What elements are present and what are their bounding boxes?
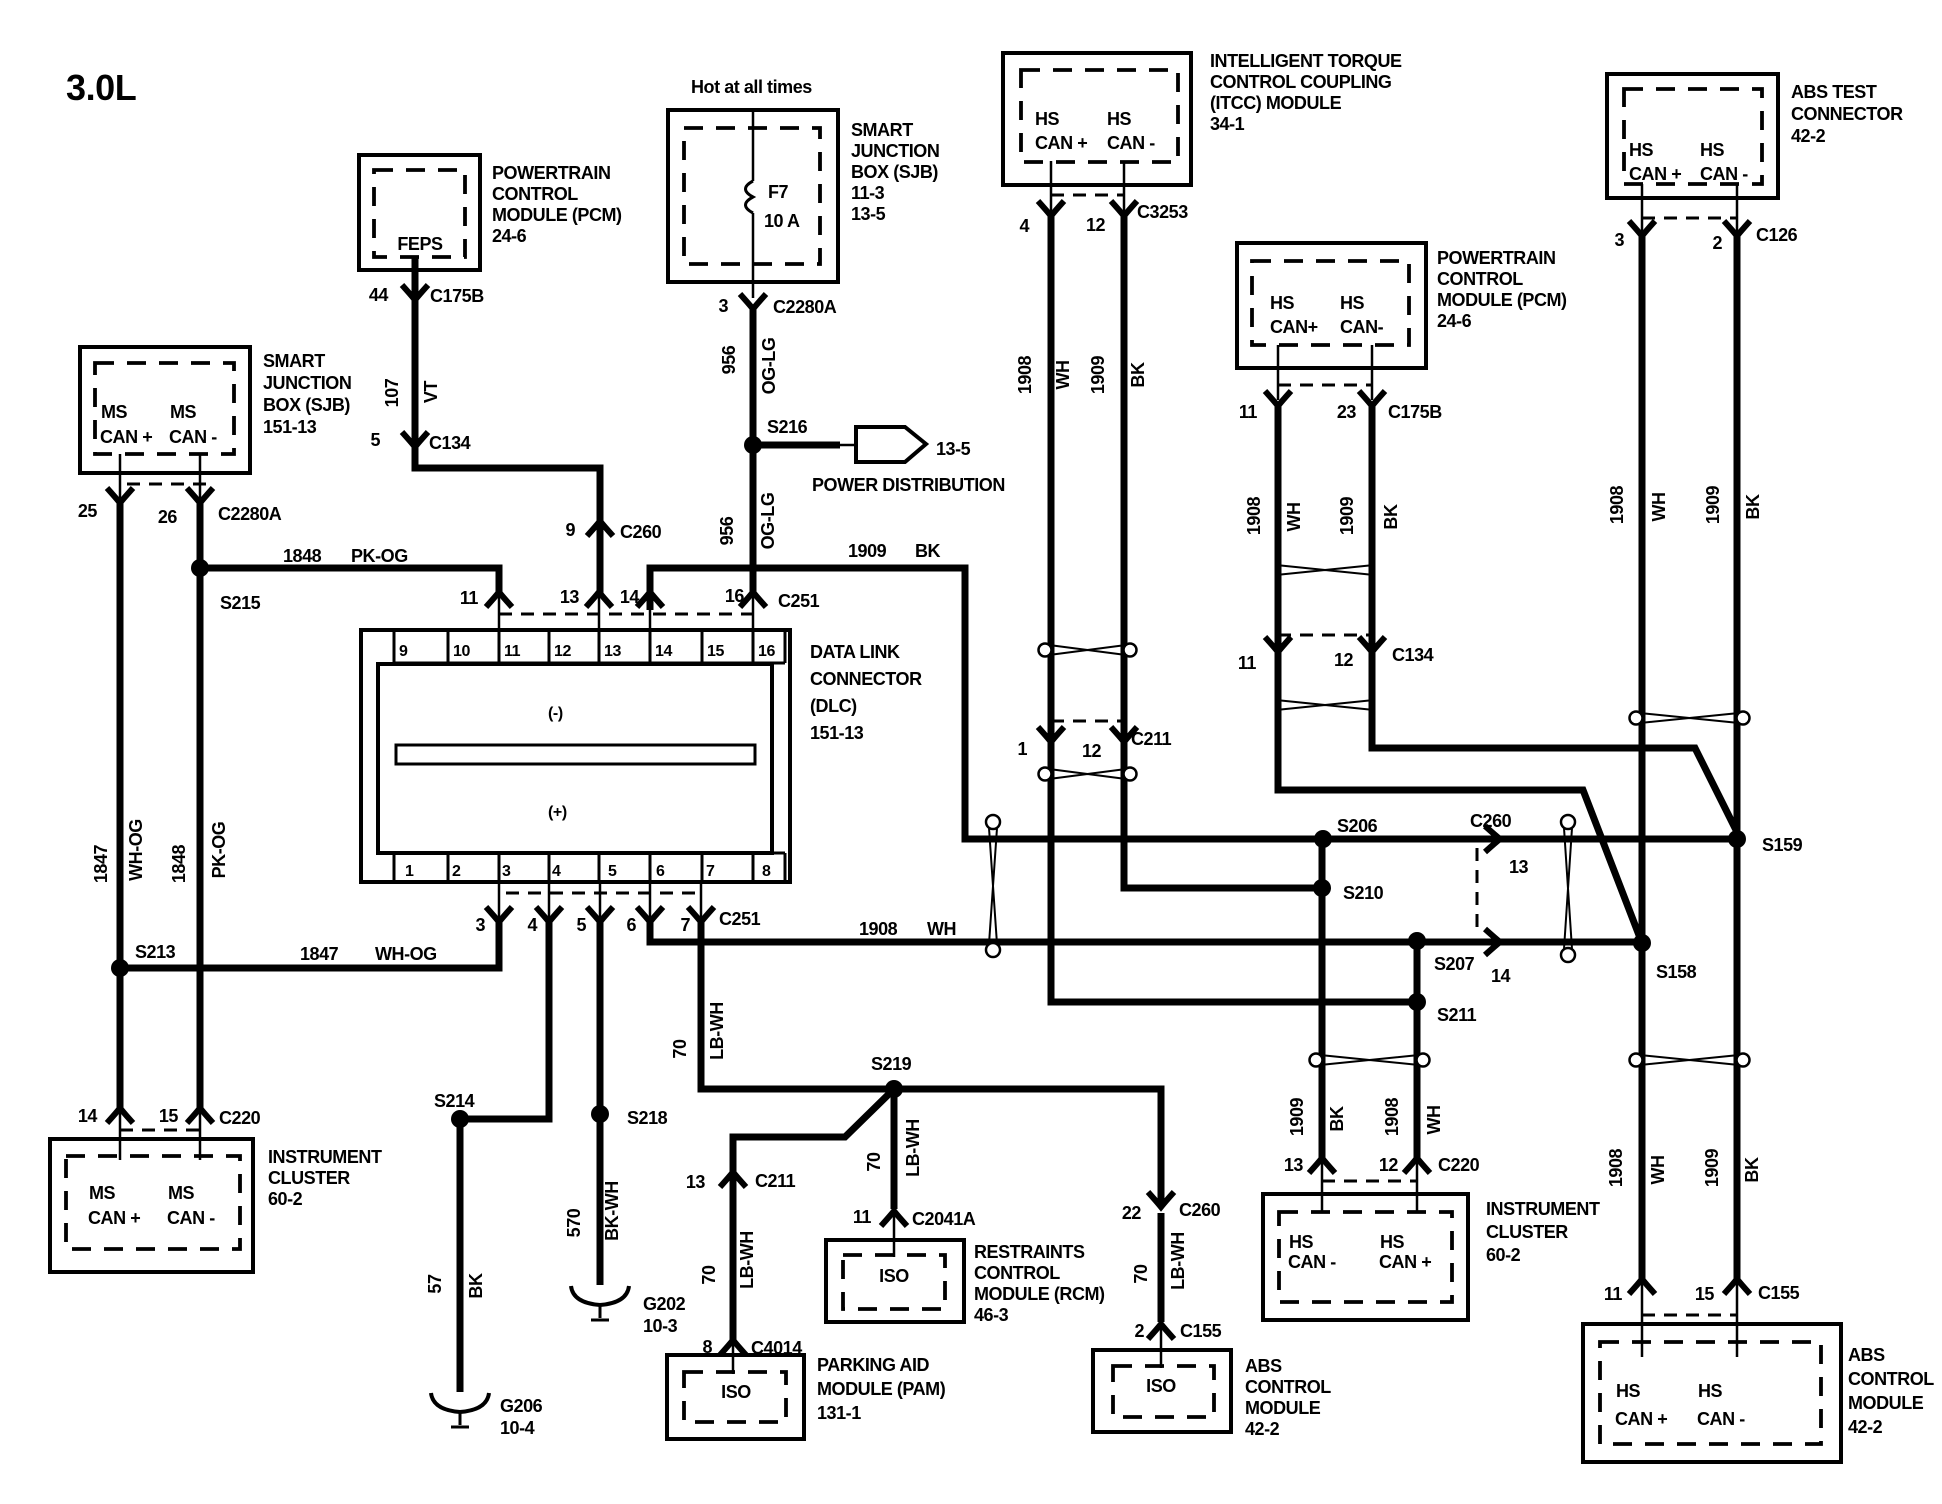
svg-text:13: 13 bbox=[1284, 1155, 1304, 1175]
svg-text:5: 5 bbox=[576, 915, 586, 935]
svg-text:1909: 1909 bbox=[848, 541, 887, 561]
svg-text:HS: HS bbox=[1340, 293, 1365, 313]
svg-text:PARKING AID: PARKING AID bbox=[817, 1355, 930, 1375]
svg-text:151-13: 151-13 bbox=[810, 723, 864, 743]
svg-text:151-13: 151-13 bbox=[263, 417, 317, 437]
svg-text:WH-OG: WH-OG bbox=[126, 819, 146, 881]
svg-text:11: 11 bbox=[460, 588, 479, 608]
svg-text:570: 570 bbox=[564, 1208, 584, 1237]
svg-text:BOX (SJB): BOX (SJB) bbox=[851, 162, 938, 182]
svg-text:CONNECTOR: CONNECTOR bbox=[810, 669, 922, 689]
svg-text:BK: BK bbox=[466, 1273, 486, 1299]
svg-text:SMART: SMART bbox=[263, 351, 325, 371]
svg-text:C2280A: C2280A bbox=[218, 504, 282, 524]
svg-text:2: 2 bbox=[1134, 1321, 1144, 1341]
svg-text:CAN +: CAN + bbox=[1629, 164, 1681, 184]
svg-text:13: 13 bbox=[604, 643, 621, 660]
svg-text:LB-WH: LB-WH bbox=[707, 1002, 727, 1060]
svg-text:WH: WH bbox=[927, 919, 956, 939]
svg-text:1909: 1909 bbox=[1287, 1097, 1307, 1136]
svg-text:(DLC): (DLC) bbox=[810, 696, 857, 716]
svg-text:23: 23 bbox=[1337, 402, 1357, 422]
svg-text:3: 3 bbox=[475, 915, 485, 935]
svg-text:16: 16 bbox=[758, 643, 775, 660]
svg-text:1908: 1908 bbox=[1244, 496, 1264, 535]
svg-text:CAN -: CAN - bbox=[1697, 1409, 1745, 1429]
svg-text:OG-LG: OG-LG bbox=[758, 493, 778, 550]
svg-text:HS: HS bbox=[1270, 293, 1295, 313]
svg-text:S211: S211 bbox=[1437, 1005, 1477, 1025]
svg-text:1908: 1908 bbox=[1015, 355, 1035, 394]
svg-text:15: 15 bbox=[159, 1106, 179, 1126]
svg-text:1908: 1908 bbox=[859, 919, 898, 939]
svg-text:HS: HS bbox=[1289, 1232, 1314, 1252]
svg-text:BK: BK bbox=[1128, 362, 1148, 388]
svg-text:MODULE: MODULE bbox=[1245, 1398, 1321, 1418]
svg-text:CAN -: CAN - bbox=[167, 1208, 215, 1228]
svg-text:S216: S216 bbox=[767, 417, 808, 437]
svg-text:HS: HS bbox=[1616, 1381, 1641, 1401]
svg-text:POWER DISTRIBUTION: POWER DISTRIBUTION bbox=[812, 475, 1005, 495]
svg-text:8: 8 bbox=[702, 1337, 712, 1357]
svg-text:C2280A: C2280A bbox=[773, 297, 837, 317]
svg-text:C260: C260 bbox=[1179, 1200, 1221, 1220]
svg-text:4: 4 bbox=[527, 915, 537, 935]
svg-text:CONTROL: CONTROL bbox=[1437, 269, 1523, 289]
svg-text:70: 70 bbox=[1131, 1264, 1151, 1284]
svg-text:CONTROL COUPLING: CONTROL COUPLING bbox=[1210, 72, 1391, 92]
svg-text:S210: S210 bbox=[1343, 883, 1384, 903]
svg-text:1848: 1848 bbox=[283, 546, 322, 566]
svg-text:C251: C251 bbox=[778, 591, 820, 611]
svg-text:HS: HS bbox=[1107, 109, 1132, 129]
svg-text:VT: VT bbox=[421, 380, 441, 403]
svg-text:HS: HS bbox=[1035, 109, 1060, 129]
svg-text:22: 22 bbox=[1122, 1203, 1142, 1223]
svg-text:WH: WH bbox=[1648, 1155, 1668, 1184]
svg-text:S159: S159 bbox=[1762, 835, 1803, 855]
svg-text:956: 956 bbox=[717, 516, 737, 545]
svg-text:13-5: 13-5 bbox=[851, 204, 886, 224]
svg-text:BK-WH: BK-WH bbox=[602, 1181, 622, 1241]
svg-text:CAN +: CAN + bbox=[1379, 1252, 1431, 1272]
svg-text:10-3: 10-3 bbox=[643, 1316, 678, 1336]
svg-text:11: 11 bbox=[504, 643, 521, 660]
svg-text:3: 3 bbox=[502, 863, 511, 880]
svg-text:G202: G202 bbox=[643, 1294, 686, 1314]
svg-text:14: 14 bbox=[78, 1106, 98, 1126]
svg-text:CLUSTER: CLUSTER bbox=[1486, 1222, 1568, 1242]
svg-text:10 A: 10 A bbox=[764, 211, 800, 231]
svg-text:BOX (SJB): BOX (SJB) bbox=[263, 395, 350, 415]
svg-text:CAN-: CAN- bbox=[1340, 317, 1384, 337]
svg-text:1: 1 bbox=[405, 863, 414, 880]
svg-text:70: 70 bbox=[864, 1152, 884, 1172]
svg-text:ABS TEST: ABS TEST bbox=[1791, 82, 1877, 102]
svg-text:C2041A: C2041A bbox=[912, 1209, 976, 1229]
svg-text:1: 1 bbox=[1017, 739, 1027, 759]
svg-text:S213: S213 bbox=[135, 942, 176, 962]
svg-text:2: 2 bbox=[1712, 233, 1722, 253]
svg-text:13: 13 bbox=[1509, 857, 1529, 877]
svg-text:ISO: ISO bbox=[1146, 1376, 1176, 1396]
svg-text:5: 5 bbox=[608, 863, 617, 880]
svg-text:46-3: 46-3 bbox=[974, 1305, 1009, 1325]
svg-text:HS: HS bbox=[1698, 1381, 1723, 1401]
svg-text:16: 16 bbox=[725, 586, 745, 606]
svg-text:S207: S207 bbox=[1434, 954, 1475, 974]
svg-text:3: 3 bbox=[718, 296, 728, 316]
svg-text:C155: C155 bbox=[1180, 1321, 1222, 1341]
svg-text:C251: C251 bbox=[719, 909, 761, 929]
svg-text:34-1: 34-1 bbox=[1210, 114, 1245, 134]
svg-text:11: 11 bbox=[1604, 1284, 1623, 1304]
svg-text:Hot at all times: Hot at all times bbox=[691, 77, 812, 97]
svg-text:CAN -: CAN - bbox=[1700, 164, 1748, 184]
svg-text:11: 11 bbox=[853, 1207, 872, 1227]
svg-text:F7: F7 bbox=[768, 182, 789, 202]
svg-text:15: 15 bbox=[1695, 1284, 1715, 1304]
svg-text:POWERTRAIN: POWERTRAIN bbox=[1437, 248, 1556, 268]
svg-text:OG-LG: OG-LG bbox=[759, 338, 779, 395]
svg-text:12: 12 bbox=[1334, 650, 1354, 670]
svg-text:CAN -: CAN - bbox=[1107, 133, 1155, 153]
svg-text:9: 9 bbox=[399, 643, 408, 660]
svg-text:107: 107 bbox=[382, 378, 402, 407]
svg-text:1908: 1908 bbox=[1382, 1097, 1402, 1136]
svg-text:S219: S219 bbox=[871, 1054, 912, 1074]
svg-text:24-6: 24-6 bbox=[1437, 311, 1472, 331]
svg-text:12: 12 bbox=[1086, 215, 1106, 235]
svg-text:4: 4 bbox=[1019, 216, 1029, 236]
svg-text:42-2: 42-2 bbox=[1848, 1417, 1883, 1437]
svg-text:CONTROL: CONTROL bbox=[974, 1263, 1060, 1283]
svg-text:ABS: ABS bbox=[1245, 1356, 1282, 1376]
svg-text:4: 4 bbox=[552, 863, 561, 880]
svg-text:C134: C134 bbox=[1392, 645, 1434, 665]
svg-text:PK-OG: PK-OG bbox=[351, 546, 408, 566]
svg-text:POWERTRAIN: POWERTRAIN bbox=[492, 163, 611, 183]
svg-text:ABS: ABS bbox=[1848, 1345, 1885, 1365]
svg-text:12: 12 bbox=[554, 643, 571, 660]
svg-text:WH: WH bbox=[1284, 502, 1304, 531]
svg-text:BK: BK bbox=[1327, 1106, 1347, 1132]
svg-text:11-3: 11-3 bbox=[851, 183, 885, 203]
svg-text:6: 6 bbox=[656, 863, 665, 880]
svg-text:70: 70 bbox=[670, 1039, 690, 1059]
svg-text:131-1: 131-1 bbox=[817, 1403, 861, 1423]
svg-text:DATA LINK: DATA LINK bbox=[810, 642, 900, 662]
svg-text:(ITCC) MODULE: (ITCC) MODULE bbox=[1210, 93, 1342, 113]
svg-text:C260: C260 bbox=[620, 522, 662, 542]
svg-text:CAN +: CAN + bbox=[1615, 1409, 1667, 1429]
svg-text:JUNCTION: JUNCTION bbox=[851, 141, 939, 161]
svg-text:5: 5 bbox=[370, 430, 380, 450]
svg-text:C260: C260 bbox=[1470, 811, 1512, 831]
svg-text:SMART: SMART bbox=[851, 120, 913, 140]
svg-text:13: 13 bbox=[686, 1172, 706, 1192]
svg-text:C175B: C175B bbox=[430, 286, 484, 306]
svg-text:1848: 1848 bbox=[169, 844, 189, 883]
svg-text:25: 25 bbox=[78, 501, 98, 521]
svg-text:MS: MS bbox=[170, 402, 197, 422]
svg-text:70: 70 bbox=[699, 1265, 719, 1285]
svg-text:LB-WH: LB-WH bbox=[903, 1119, 923, 1177]
svg-text:7: 7 bbox=[680, 915, 690, 935]
svg-text:14: 14 bbox=[620, 587, 640, 607]
svg-text:BK: BK bbox=[1742, 1157, 1762, 1183]
svg-text:CONTROL: CONTROL bbox=[1848, 1369, 1934, 1389]
svg-text:HS: HS bbox=[1380, 1232, 1405, 1252]
svg-text:G206: G206 bbox=[500, 1396, 543, 1416]
svg-text:10-4: 10-4 bbox=[500, 1418, 535, 1438]
svg-text:6: 6 bbox=[626, 915, 636, 935]
svg-text:11: 11 bbox=[1239, 402, 1258, 422]
svg-text:ISO: ISO bbox=[721, 1382, 751, 1402]
svg-text:CAN +: CAN + bbox=[100, 427, 152, 447]
svg-text:WH-OG: WH-OG bbox=[375, 944, 437, 964]
svg-text:BK: BK bbox=[915, 541, 941, 561]
svg-text:CAN +: CAN + bbox=[1035, 133, 1087, 153]
svg-text:1909: 1909 bbox=[1337, 496, 1357, 535]
svg-text:CAN+: CAN+ bbox=[1270, 317, 1318, 337]
svg-text:CAN -: CAN - bbox=[1288, 1252, 1336, 1272]
svg-text:7: 7 bbox=[706, 863, 715, 880]
svg-text:12: 12 bbox=[1379, 1155, 1399, 1175]
svg-text:42-2: 42-2 bbox=[1791, 126, 1826, 146]
svg-text:S158: S158 bbox=[1656, 962, 1697, 982]
svg-text:INSTRUMENT: INSTRUMENT bbox=[268, 1147, 382, 1167]
svg-text:8: 8 bbox=[762, 863, 771, 880]
svg-text:956: 956 bbox=[719, 345, 739, 374]
svg-text:(-): (-) bbox=[548, 705, 563, 722]
svg-text:MS: MS bbox=[89, 1183, 116, 1203]
svg-text:HS: HS bbox=[1700, 140, 1725, 160]
svg-text:CONNECTOR: CONNECTOR bbox=[1791, 104, 1903, 124]
svg-text:C126: C126 bbox=[1756, 225, 1798, 245]
svg-text:PK-OG: PK-OG bbox=[209, 822, 229, 879]
svg-text:CAN +: CAN + bbox=[88, 1208, 140, 1228]
svg-text:60-2: 60-2 bbox=[1486, 1245, 1521, 1265]
svg-text:12: 12 bbox=[1082, 741, 1102, 761]
svg-text:S206: S206 bbox=[1337, 816, 1378, 836]
svg-text:LB-WH: LB-WH bbox=[1168, 1232, 1188, 1290]
svg-text:1908: 1908 bbox=[1607, 485, 1627, 524]
svg-text:C155: C155 bbox=[1758, 1283, 1800, 1303]
svg-text:3.0L: 3.0L bbox=[66, 67, 136, 108]
svg-text:C4014: C4014 bbox=[751, 1338, 802, 1358]
svg-text:44: 44 bbox=[369, 285, 389, 305]
svg-text:RESTRAINTS: RESTRAINTS bbox=[974, 1242, 1085, 1262]
svg-text:MODULE (PCM): MODULE (PCM) bbox=[492, 205, 622, 225]
svg-text:WH: WH bbox=[1053, 360, 1073, 389]
svg-text:24-6: 24-6 bbox=[492, 226, 527, 246]
svg-text:15: 15 bbox=[707, 643, 724, 660]
svg-text:MS: MS bbox=[101, 402, 128, 422]
svg-text:1909: 1909 bbox=[1702, 1148, 1722, 1187]
svg-text:FEPS: FEPS bbox=[397, 234, 443, 254]
svg-text:INTELLIGENT TORQUE: INTELLIGENT TORQUE bbox=[1210, 51, 1402, 71]
svg-text:C3253: C3253 bbox=[1137, 202, 1188, 222]
svg-text:C134: C134 bbox=[429, 433, 471, 453]
svg-text:MODULE: MODULE bbox=[1848, 1393, 1924, 1413]
svg-text:1909: 1909 bbox=[1703, 485, 1723, 524]
svg-text:1908: 1908 bbox=[1606, 1148, 1626, 1187]
svg-text:MS: MS bbox=[168, 1183, 195, 1203]
svg-text:MODULE (RCM): MODULE (RCM) bbox=[974, 1284, 1105, 1304]
svg-text:BK: BK bbox=[1381, 504, 1401, 530]
svg-text:10: 10 bbox=[453, 643, 470, 660]
svg-text:2: 2 bbox=[452, 863, 461, 880]
svg-text:42-2: 42-2 bbox=[1245, 1419, 1280, 1439]
svg-text:MODULE (PCM): MODULE (PCM) bbox=[1437, 290, 1567, 310]
svg-text:11: 11 bbox=[1238, 653, 1257, 673]
svg-text:C220: C220 bbox=[1438, 1155, 1480, 1175]
svg-text:CONTROL: CONTROL bbox=[1245, 1377, 1331, 1397]
svg-text:CLUSTER: CLUSTER bbox=[268, 1168, 350, 1188]
svg-text:MODULE (PAM): MODULE (PAM) bbox=[817, 1379, 946, 1399]
svg-text:WH: WH bbox=[1424, 1105, 1444, 1134]
svg-text:ISO: ISO bbox=[879, 1266, 909, 1286]
svg-text:13: 13 bbox=[560, 587, 580, 607]
svg-text:JUNCTION: JUNCTION bbox=[263, 373, 351, 393]
svg-text:1847: 1847 bbox=[91, 844, 111, 883]
svg-text:CAN -: CAN - bbox=[169, 427, 217, 447]
svg-text:13-5: 13-5 bbox=[936, 439, 971, 459]
svg-text:S215: S215 bbox=[220, 593, 261, 613]
svg-text:26: 26 bbox=[158, 507, 178, 527]
svg-text:S218: S218 bbox=[627, 1108, 668, 1128]
svg-text:1847: 1847 bbox=[300, 944, 339, 964]
svg-text:60-2: 60-2 bbox=[268, 1189, 303, 1209]
svg-text:1909: 1909 bbox=[1088, 355, 1108, 394]
svg-text:S214: S214 bbox=[434, 1091, 475, 1111]
svg-text:C211: C211 bbox=[1131, 729, 1172, 749]
svg-text:INSTRUMENT: INSTRUMENT bbox=[1486, 1199, 1600, 1219]
svg-text:WH: WH bbox=[1649, 492, 1669, 521]
svg-text:(+): (+) bbox=[548, 804, 567, 821]
svg-text:14: 14 bbox=[1491, 966, 1511, 986]
svg-text:57: 57 bbox=[425, 1274, 445, 1294]
svg-text:CONTROL: CONTROL bbox=[492, 184, 578, 204]
svg-text:3: 3 bbox=[1614, 230, 1624, 250]
svg-text:HS: HS bbox=[1629, 140, 1654, 160]
svg-text:9: 9 bbox=[565, 520, 575, 540]
svg-text:C220: C220 bbox=[219, 1108, 261, 1128]
svg-text:14: 14 bbox=[655, 643, 672, 660]
svg-text:C175B: C175B bbox=[1388, 402, 1442, 422]
svg-text:C211: C211 bbox=[755, 1171, 796, 1191]
svg-text:LB-WH: LB-WH bbox=[737, 1231, 757, 1289]
svg-text:BK: BK bbox=[1743, 494, 1763, 520]
